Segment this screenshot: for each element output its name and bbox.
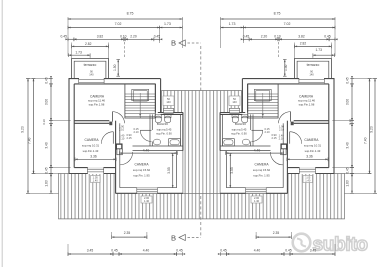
watermark subito logo	[293, 234, 311, 252]
axis dashes stair wall	[124, 42, 126, 58]
bathroom annex east wall	[182, 113, 184, 151]
svg-text:2.10: 2.10	[264, 130, 270, 134]
svg-text:sup.Fin. 0.90: sup.Fin. 0.90	[231, 131, 247, 135]
svg-text:0.45: 0.45	[243, 35, 250, 39]
bathroom wc fixture	[155, 115, 162, 118]
svg-text:2.15: 2.15	[126, 136, 132, 140]
svg-text:sup.Fin.1.43: sup.Fin.1.43	[305, 149, 321, 153]
svg-text:sup.Fin.1.98: sup.Fin.1.98	[299, 102, 315, 106]
svg-text:140: 140	[89, 72, 94, 76]
section arrow bottom	[179, 234, 185, 240]
svg-text:0.45: 0.45	[176, 248, 183, 252]
bathroom window sills	[164, 112, 174, 114]
svg-text:140: 140	[232, 100, 237, 104]
svg-text:sup.Fin.1.98: sup.Fin.1.98	[89, 102, 105, 106]
section arrow top	[179, 40, 185, 46]
svg-text:0.10: 0.10	[348, 119, 352, 125]
svg-text:3.82: 3.82	[298, 35, 305, 39]
svg-text:8.75: 8.75	[274, 11, 281, 15]
dim line 2.35 bottom	[112, 236, 147, 238]
dim line 7.02 / 1.73 top	[68, 27, 160, 29]
svg-text:0.45: 0.45	[346, 167, 350, 173]
svg-text:0.10: 0.10	[274, 35, 281, 39]
svg-text:1.40: 1.40	[305, 179, 311, 183]
svg-text:3.40: 3.40	[346, 142, 350, 148]
partition wall between bedrooms	[74, 120, 109, 122]
bedroom2 door pillar	[116, 144, 122, 149]
bathroom tub	[169, 139, 181, 146]
svg-text:2.10: 2.10	[279, 128, 285, 132]
staircase	[125, 84, 155, 118]
deck hatched terrace	[59, 174, 345, 219]
svg-text:4.40: 4.40	[143, 248, 150, 252]
svg-text:0.45: 0.45	[44, 167, 48, 173]
svg-text:2.20: 2.20	[130, 35, 137, 39]
svg-text:140: 140	[166, 100, 171, 104]
svg-text:sup.Fin. 1.95: sup.Fin. 1.95	[133, 174, 150, 178]
svg-text:0.45: 0.45	[154, 35, 161, 39]
dim line 3.36 bedroom2	[75, 158, 116, 160]
svg-text:1.50: 1.50	[284, 64, 288, 71]
svg-text:B: B	[171, 39, 176, 48]
dim line 4.40 lower bedroom	[120, 152, 178, 154]
svg-text:sup.mq 5.45: sup.mq 5.45	[157, 128, 172, 132]
top wall	[69, 78, 161, 80]
svg-text:1.40: 1.40	[93, 179, 99, 183]
svg-text:BAGNO: BAGNO	[157, 122, 169, 126]
svg-text:3.45: 3.45	[87, 248, 94, 252]
svg-text:0.45: 0.45	[111, 248, 118, 252]
svg-text:3.45: 3.45	[310, 248, 317, 252]
witness lines left	[26, 78, 52, 80]
svg-text:3.40: 3.40	[44, 142, 48, 148]
svg-text:sup.mq 10.31: sup.mq 10.31	[82, 143, 100, 147]
svg-text:4.40: 4.40	[254, 149, 261, 153]
window top wall sills	[79, 78, 104, 83]
middle hatched band between units	[162, 91, 242, 194]
svg-text:0.45: 0.45	[285, 248, 292, 252]
stair walking line arrow	[139, 93, 141, 115]
svg-text:sup.mq 15.62: sup.mq 15.62	[133, 168, 151, 172]
svg-text:terrazzo: terrazzo	[84, 63, 97, 67]
dim line 3.55 lower bedroom	[172, 153, 174, 187]
svg-text:0.10: 0.10	[120, 35, 127, 39]
svg-text:sup.mq 5.45: sup.mq 5.45	[232, 128, 247, 132]
left unit geometry	[26, 17, 185, 256]
svg-text:2.10: 2.10	[119, 137, 125, 141]
section line B-B	[200, 46, 202, 91]
svg-text:sup.Fin. 1.95: sup.Fin. 1.95	[253, 174, 270, 178]
svg-text:CAMERA: CAMERA	[134, 162, 149, 166]
svg-text:9.23: 9.23	[369, 126, 373, 133]
dim line 7.40 left	[33, 79, 35, 174]
svg-text:2.20: 2.20	[261, 35, 268, 39]
svg-text:2.10: 2.10	[119, 128, 125, 132]
svg-text:sup.mq 10.31: sup.mq 10.31	[304, 143, 322, 147]
dim chain bottom	[68, 253, 113, 255]
svg-text:9.23: 9.23	[21, 126, 25, 133]
door arc lower bedroom	[120, 152, 133, 165]
svg-text:0.45: 0.45	[220, 248, 227, 252]
left wall	[68, 79, 70, 174]
svg-text:8.75: 8.75	[127, 11, 134, 15]
dim chain top	[68, 38, 74, 40]
svg-text:2.35: 2.35	[124, 231, 131, 235]
svg-text:4.40: 4.40	[143, 149, 150, 153]
svg-text:3.55: 3.55	[230, 167, 234, 174]
terrazzo balcony outline	[72, 59, 109, 79]
window label box lower bedroom	[141, 196, 152, 203]
svg-text:0.45: 0.45	[44, 77, 48, 83]
svg-text:1.83: 1.83	[44, 180, 48, 186]
bathroom west wall	[149, 114, 151, 146]
lower bedroom walls	[115, 121, 117, 194]
svg-text:3.36: 3.36	[306, 155, 313, 159]
right wall upper	[160, 79, 162, 113]
svg-text:3.00: 3.00	[44, 99, 48, 105]
svg-text:3.82: 3.82	[97, 35, 104, 39]
svg-text:1.73: 1.73	[315, 48, 322, 52]
hall south wall	[133, 145, 183, 147]
svg-text:140: 140	[309, 72, 314, 76]
svg-text:1.73: 1.73	[229, 22, 236, 26]
svg-text:subito: subito	[313, 235, 368, 256]
bathroom sink	[153, 139, 161, 145]
bathroom annex top wall	[158, 112, 183, 114]
svg-text:4.40: 4.40	[254, 248, 261, 252]
svg-text:1.73: 1.73	[75, 51, 82, 55]
svg-text:1.83: 1.83	[346, 180, 350, 186]
window lower bedroom sills	[137, 188, 158, 194]
svg-text:3.55: 3.55	[167, 167, 171, 174]
right unit geometry (mirror)	[218, 17, 377, 256]
svg-text:CAMERA: CAMERA	[254, 162, 269, 166]
svg-text:1.50: 1.50	[113, 64, 117, 71]
page border line	[1, 0, 3, 267]
window bedroom2 sills	[88, 167, 104, 174]
svg-text:0.45: 0.45	[346, 77, 350, 83]
door leaf box lower bedroom	[117, 149, 122, 155]
svg-text:2.15: 2.15	[271, 136, 277, 140]
dim line 1.73 terrace	[69, 54, 91, 56]
door jamb block	[109, 122, 112, 126]
door arc bathroom	[140, 130, 151, 141]
svg-text:7.40: 7.40	[28, 137, 32, 144]
svg-text:BAGNO: BAGNO	[235, 122, 247, 126]
svg-text:0.45: 0.45	[60, 35, 67, 39]
bathroom window symbol	[164, 108, 174, 113]
svg-text:2.10: 2.10	[279, 137, 285, 141]
window label box bedroom2	[91, 176, 101, 183]
svg-text:sup.Fin.1.43: sup.Fin.1.43	[83, 149, 99, 153]
svg-text:0.45: 0.45	[324, 35, 331, 39]
svg-text:0.10: 0.10	[42, 119, 46, 125]
svg-text:B: B	[171, 233, 176, 242]
svg-text:2.10: 2.10	[133, 130, 139, 134]
dim chain left	[50, 79, 52, 84]
svg-text:2.82: 2.82	[85, 42, 92, 46]
svg-text:7.02: 7.02	[115, 22, 122, 26]
svg-text:sup.Fin. 0.90: sup.Fin. 0.90	[156, 131, 172, 135]
dim line 1.50 terrace depth	[117, 60, 119, 77]
bedroom2 south wall	[69, 173, 116, 175]
svg-text:1.40: 1.40	[144, 199, 150, 203]
svg-text:1.40: 1.40	[254, 199, 260, 203]
bathroom bidet fixture	[164, 115, 171, 118]
witness lines top	[67, 21, 69, 56]
svg-text:3.00: 3.00	[346, 99, 350, 105]
door arc stair hall	[112, 112, 124, 124]
door arc bedroom2	[101, 132, 113, 144]
svg-text:1.73: 1.73	[164, 22, 171, 26]
svg-text:sup.mq 15.62: sup.mq 15.62	[253, 168, 271, 172]
svg-text:terrazzo: terrazzo	[307, 63, 320, 67]
svg-text:CAMERA: CAMERA	[85, 138, 100, 142]
svg-text:7.02: 7.02	[284, 22, 291, 26]
svg-text:2.35: 2.35	[273, 231, 280, 235]
dim line 9.23 left	[27, 79, 29, 194]
svg-text:CAMERA: CAMERA	[304, 138, 319, 142]
dim line 8.75 top	[68, 18, 182, 20]
dim line 2.82 terrace	[72, 45, 109, 47]
window label box bathroom	[163, 96, 174, 106]
svg-text:7.40: 7.40	[363, 137, 367, 144]
svg-text:2.82: 2.82	[300, 42, 307, 46]
svg-text:3.36: 3.36	[90, 155, 97, 159]
